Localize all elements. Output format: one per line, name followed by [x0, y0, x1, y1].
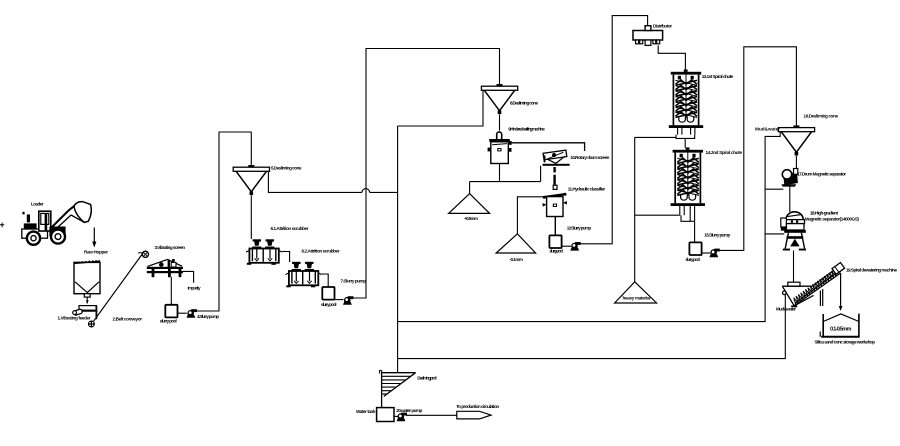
pile +0.5mm	[449, 194, 490, 214]
wire drum separator left out	[765, 188, 783, 190]
wire pool to pump 12	[562, 245, 571, 247]
wire cone8 overflow	[398, 90, 483, 126]
svg-text:0.1-0.5mm: 0.1-0.5mm	[830, 327, 852, 333]
rotary drum screen 10	[543, 150, 570, 166]
wire machine9 bottom T	[470, 164, 541, 194]
wire high-gradient to dewatering	[793, 251, 795, 283]
svg-text:8.Desliming cone: 8.Desliming cone	[510, 101, 538, 106]
svg-text:Raw Hopper: Raw Hopper	[84, 250, 108, 255]
svg-text:14.2nd Spiral chute: 14.2nd Spiral chute	[706, 150, 743, 155]
svg-text:impurity: impurity	[188, 286, 201, 291]
wire pool to pump 4	[178, 312, 187, 314]
svg-text:18.High-gradient: 18.High-gradient	[810, 211, 838, 216]
svg-text:10.Rotary drum screen: 10.Rotary drum screen	[570, 155, 609, 160]
wire classifier to pool	[554, 217, 556, 236]
desliming cone 16	[778, 125, 814, 155]
wire chute14 legs	[680, 206, 695, 242]
svg-text:Desliming pool: Desliming pool	[417, 376, 437, 381]
wire pump4 to cone5	[196, 132, 251, 311]
wire dewatering mud out	[398, 295, 786, 359]
svg-text:3.Vibrating screen: 3.Vibrating screen	[155, 245, 186, 250]
edge mark	[0, 223, 4, 228]
production circulation arrow	[457, 411, 491, 419]
svg-text:Magnetic separator(14000GS): Magnetic separator(14000GS)	[805, 217, 859, 222]
wire cone8 to machine9	[499, 114, 501, 130]
wire dewatering discharge arrow to bin	[840, 273, 842, 307]
wire distributor to chute 13	[658, 45, 685, 69]
wire cone5 to scrubber	[250, 195, 252, 239]
wire pump20 to circulation arrow	[406, 414, 457, 416]
drum magnetic separator 17	[781, 169, 798, 187]
wire cone16 overflow mud&water	[398, 132, 781, 322]
wire chute14 mids to heavy line	[635, 214, 680, 216]
slurry pump 4	[187, 309, 197, 318]
svg-text:9.Hindered settling machine: 9.Hindered settling machine	[508, 127, 545, 132]
svg-text:11.Hydraulic classifier: 11.Hydraulic classifier	[568, 187, 606, 192]
wire pool to pump 15	[702, 252, 710, 254]
wire classifier overflow to -0.1mm	[517, 197, 546, 234]
slurry pump 15	[709, 249, 719, 258]
svg-text:7.Slurry pump: 7.Slurry pump	[341, 279, 367, 284]
wire cone16 to drum separator	[795, 156, 797, 169]
wire 6.2 to pool	[322, 274, 329, 287]
svg-text:2.Belt conveyor: 2.Belt conveyor	[113, 317, 143, 322]
slurry pump 7	[343, 296, 353, 305]
svg-text:20.water pump: 20.water pump	[396, 408, 422, 413]
svg-text:19.Spiral dewatering machine: 19.Spiral dewatering machine	[846, 268, 897, 273]
svg-text:17.Drum Magnetic separator: 17.Drum Magnetic separator	[797, 172, 846, 177]
svg-text:Loader: Loader	[31, 202, 44, 207]
desliming cone 8	[481, 84, 517, 114]
svg-text:1.Vibrating feeder: 1.Vibrating feeder	[58, 316, 91, 321]
main riser to desliming pool	[397, 126, 399, 372]
wire 6.1 to 6.2	[282, 252, 290, 263]
slurry pool (chute)	[689, 242, 701, 255]
wire chute13 mid product to heavy line	[635, 136, 676, 138]
wire drum screen underflow (thick dashes)	[553, 167, 555, 185]
pile heavy material	[615, 282, 657, 303]
loader discharge arrow	[92, 228, 96, 248]
svg-text:slurry pool: slurry pool	[160, 319, 177, 324]
pile -0.1mm	[496, 234, 535, 253]
hydraulic classifier 11	[543, 185, 567, 216]
slurry pool (classifier)	[549, 235, 561, 248]
svg-text:slurry pool: slurry pool	[685, 257, 700, 262]
water pump 20	[397, 413, 407, 422]
distributor	[633, 26, 663, 46]
storage workshop bin	[820, 314, 860, 337]
svg-text:Mud&water: Mud&water	[776, 307, 796, 312]
water tank	[377, 408, 394, 422]
slurry pool (scrubber)	[322, 287, 334, 300]
wire drum separator to high-gradient	[789, 186, 791, 212]
slurry pump 12	[570, 242, 580, 251]
svg-text:+0.5mm: +0.5mm	[464, 216, 478, 221]
wire pool to pump 7	[335, 299, 344, 301]
svg-text:-0.1mm: -0.1mm	[510, 257, 524, 262]
svg-text:heavy material: heavy material	[623, 296, 651, 301]
loader	[22, 202, 92, 245]
wire pump15 riser to cone16	[719, 47, 797, 251]
svg-text:6.1.Attrition scrubber: 6.1.Attrition scrubber	[271, 226, 309, 231]
wire pump12 riser to distributor	[580, 16, 648, 244]
svg-text:5.Desliming cone: 5.Desliming cone	[271, 166, 302, 171]
belt conveyor 2	[88, 251, 149, 327]
wire cone5 overflow with hump	[268, 172, 397, 193]
svg-text:4.Slurry pump: 4.Slurry pump	[197, 314, 219, 319]
wire high-gradient left in	[765, 233, 784, 235]
desliming pool	[380, 370, 416, 407]
high-gradient magnetic separator 18	[781, 212, 806, 251]
svg-text:15.Slurry pump: 15.Slurry pump	[704, 233, 730, 238]
wire screen underflow to slurry pool	[170, 277, 172, 305]
spiral dewatering machine 19	[782, 263, 844, 308]
svg-text:Mud&water: Mud&water	[755, 127, 780, 132]
wire screen to impurity	[183, 271, 194, 282]
svg-text:13.1st Spiral chute: 13.1st Spiral chute	[702, 74, 734, 79]
svg-text:16.Desliming cone: 16.Desliming cone	[804, 114, 839, 119]
vibrating feeder 1	[73, 306, 98, 320]
wire hopper to feeder	[86, 297, 88, 303]
desliming cone 5	[233, 165, 269, 195]
raw hopper	[74, 260, 100, 297]
wire machine9 right out	[512, 143, 585, 151]
svg-text:6.2.Attrition scrubber: 6.2.Attrition scrubber	[302, 249, 340, 254]
svg-text:Silica sand conc storage works: Silica sand conc storage workshop	[815, 340, 876, 345]
svg-text:Water tank: Water tank	[356, 409, 376, 414]
wire chute13 legs and collector	[676, 128, 695, 148]
svg-text:To production circulation: To production circulation	[456, 404, 499, 409]
attrition scrubber 6.1	[246, 239, 282, 264]
hindered settling machine 9	[488, 132, 512, 164]
wire pump7 riser to cone8	[352, 49, 499, 299]
wire tank to pump 20	[394, 415, 398, 417]
svg-text:slurry pool: slurry pool	[321, 302, 337, 307]
svg-text:slurry pool: slurry pool	[549, 249, 563, 254]
svg-text:Distributor: Distributor	[653, 24, 672, 29]
spiral chute 13	[669, 69, 703, 128]
spiral chute 14	[671, 147, 705, 206]
vibrating screen 3	[147, 259, 183, 277]
attrition scrubber 6.2	[286, 262, 322, 288]
slurry pool (screen)	[165, 305, 177, 318]
wire heavy material line	[634, 137, 636, 281]
svg-text:12.Slurry pump: 12.Slurry pump	[567, 226, 592, 231]
